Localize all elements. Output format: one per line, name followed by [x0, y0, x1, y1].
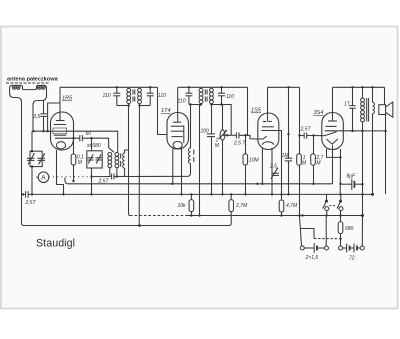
wire E line (AVC/detector return) [91, 176, 111, 178]
top rail segment 4 [333, 86, 385, 88]
wire secondary bottom down to rail B end [372, 120, 374, 194]
wire rail C down to battery 72 [361, 216, 363, 247]
svg-text:st.580: st.580 [87, 143, 101, 149]
tube 3S4 filament leads joined [327, 149, 341, 194]
IFT2 capacitor 110 left [185, 87, 192, 104]
svg-text:10M: 10M [249, 157, 260, 163]
top rail segment 3 [268, 86, 300, 88]
antenna right winding [37, 86, 41, 90]
variable capacitor C-tune 2 [38, 154, 46, 165]
wire IFT1 secondary return down to rail D [138, 106, 140, 226]
svg-text:4,7M: 4,7M [286, 203, 298, 209]
IFT2 primary winding [199, 87, 203, 104]
svg-text:2,5T: 2,5T [25, 200, 37, 206]
svg-text:2,5T: 2,5T [300, 126, 312, 132]
detector coil core dashes [193, 150, 195, 163]
wire tuning cap to rail B [31, 167, 33, 195]
switch S1 (filament) [323, 194, 329, 216]
output transformer primary winding [361, 87, 365, 122]
tube 1S5 plate wire out right [275, 131, 282, 195]
wire trimmer box to rail B [91, 168, 93, 194]
capacitor 8uF electrolytic [341, 179, 363, 190]
battery 2x1,5 cells [304, 243, 324, 253]
IFT2 capacitor 110 right [218, 87, 225, 104]
wire IFT2 primary return down to rail C [199, 105, 201, 216]
wire after cap 50 to osc coil [82, 138, 114, 152]
svg-text:110: 110 [178, 99, 186, 105]
oscillator coil core [120, 154, 122, 167]
svg-text:1S5: 1S5 [251, 108, 262, 114]
junction node antenna/grid [32, 130, 34, 132]
wire plate line y131 [343, 131, 385, 194]
top rail segment 2 [178, 86, 248, 88]
resistor 1M to rail [297, 136, 302, 216]
capacitor 2,5T antenna series at rail B left [22, 191, 33, 197]
resistor 10k [189, 194, 194, 216]
node 1R5 lead on rail B [62, 193, 64, 195]
tube 1T4 filament [173, 141, 182, 148]
tube 1R5 cathode leads to rail [57, 150, 64, 194]
rail D (bottom) [22, 192, 232, 226]
potentiometer 1M (oval) [219, 105, 227, 195]
wire switch S1 down to battery [325, 216, 327, 247]
capacitor 1M (coupling to output grid chain) [285, 134, 292, 194]
tube 1T4 grid bars [171, 125, 184, 127]
IFT2 bottom fold wires [189, 104, 201, 106]
dashed underline under antenna label [6, 82, 49, 84]
tube 1S5 top lead to rail [267, 87, 269, 121]
battery 72 terminal right [360, 246, 364, 250]
capacitor 2,5T on E line [112, 174, 114, 180]
svg-text:50: 50 [86, 131, 92, 137]
resistor 2,7M grid return [311, 136, 316, 184]
dashed wire from jack A [49, 176, 92, 178]
wire IFT1 primary return down to rail C [129, 106, 131, 216]
oscillator coil winding 1 [108, 153, 112, 168]
svg-text:A: A [41, 175, 46, 182]
wire pot wiper to grid [223, 134, 236, 136]
svg-text:2×1,5: 2×1,5 [305, 255, 319, 261]
tube 1T4 plate bar [173, 121, 182, 123]
wire cap to 3S4 grid [307, 135, 322, 137]
capacitor 2,5T to 3S4 grid [304, 133, 307, 139]
capacitor 2,5T coupling to 1S5 [236, 132, 239, 138]
IFT1 capacitor 110 right [147, 87, 154, 105]
battery 2x1,5 terminal right [325, 246, 329, 250]
ferrite rod antenna outline [10, 85, 47, 192]
svg-text:1M: 1M [282, 153, 290, 159]
svg-text:2,5: 2,5 [269, 164, 277, 170]
IFT1 capacitor 110 left [113, 87, 120, 105]
battery 72 cells [343, 244, 360, 253]
svg-text:110: 110 [103, 93, 111, 99]
svg-text:antena pałeczkowa: antena pałeczkowa [7, 77, 59, 83]
tube 1R5 envelope [51, 112, 74, 150]
IFT1 core [133, 90, 135, 102]
wire: grid line from antenna to 1R5 and across to oscillator corner [34, 131, 118, 152]
svg-text:680: 680 [345, 226, 354, 232]
capacitor 3,5 (antenna coupling) [40, 101, 46, 132]
trimmer capacitor 1 [88, 154, 94, 163]
tube 3S4 filament center tap down to rail A [332, 145, 334, 183]
svg-text:3S4: 3S4 [314, 110, 324, 116]
resistor 680 [338, 216, 343, 246]
svg-text:8μF: 8μF [347, 173, 357, 179]
tube 3S4 envelope [322, 113, 344, 150]
tube 1R5 grid bars [54, 124, 66, 126]
wire rail seg3 corner down to R6 [299, 87, 301, 135]
rail B (ground/B-) [32, 193, 371, 195]
svg-text:72: 72 [349, 256, 355, 262]
tube 1S5 filament [262, 142, 274, 145]
IFT2 core [205, 90, 207, 102]
jack A circle [38, 172, 49, 183]
IFT1 secondary winding [138, 87, 142, 105]
resistor 0,1M [71, 138, 76, 181]
tube 1T4 envelope [167, 113, 189, 150]
wire R6 with coupling cap to 3S4 grid [300, 135, 304, 137]
capacitor 100 [207, 134, 215, 137]
wire vertical B- to battery area [362, 131, 364, 216]
trimmer box (padder) [87, 151, 102, 168]
tube 1T4 plate lead from top rail [177, 87, 179, 122]
tube 3S4 filament [326, 139, 337, 144]
resistor 10M grid leak [243, 135, 248, 194]
capacitor 50 [80, 135, 83, 141]
svg-text:110: 110 [158, 93, 166, 99]
oscillator tickler winding arcs [123, 153, 125, 168]
wire 1R5 plate out [55, 137, 80, 139]
capacitor 77 tone [349, 87, 355, 131]
svg-text:100: 100 [201, 129, 210, 135]
wire: screen corner from top rail down into 1R5 [48, 87, 60, 131]
tube 1S5 grid bars [262, 126, 274, 128]
IFT1 primary winding [127, 87, 131, 105]
svg-text:1T4: 1T4 [161, 108, 171, 114]
wire top rail seg1 corner down to 1T4 grid [158, 87, 168, 134]
detector coil bottom corner to E line [190, 164, 192, 175]
svg-text:3,5: 3,5 [33, 114, 40, 120]
tube 1S5 envelope [258, 113, 279, 150]
svg-text:2,7M: 2,7M [235, 203, 248, 209]
speaker [379, 102, 393, 117]
tube 1R5 filament loop [56, 142, 65, 149]
tube 1S5 diode plate dashes [263, 121, 272, 123]
resistor 4,7M [279, 194, 284, 216]
speaker top lead [384, 87, 386, 104]
wire IFT2 left branch down to detector coil [190, 105, 192, 149]
oscillator coil winding 2 [115, 153, 119, 168]
rail A (filament minus) [65, 178, 333, 184]
wire rail seg2 corner down to grid line [246, 87, 248, 135]
IFT2 secondary winding [210, 87, 214, 104]
wire E line continues to detector coil corner [114, 175, 191, 177]
potentiometer 2,5 regen trimmer [271, 168, 279, 179]
svg-text:Staudigl: Staudigl [36, 238, 75, 250]
svg-text:2,5 T: 2,5 T [233, 140, 246, 146]
tube 3S4 plate bar [328, 120, 337, 122]
resistor 2,7M bias [229, 194, 234, 212]
wire cap 100 down to rail B [211, 137, 213, 194]
rail C (switched B+) partially dashed [130, 215, 186, 217]
tube 1S5 filament leads [261, 148, 263, 184]
wire screen drop with coupling cap [288, 87, 290, 134]
osc winding bottom leads [109, 168, 111, 177]
wire tuning cap top feed [31, 131, 33, 151]
tuning gang box [30, 151, 42, 166]
battery 72 terminal left [339, 246, 343, 250]
wire into trimmer box [91, 138, 93, 151]
switch S2 (HT) [337, 194, 343, 216]
wire transformer primary bottom to plate line [362, 122, 364, 131]
output transformer secondary [373, 98, 375, 120]
tube 3S4 plate lead up to rail [332, 87, 334, 121]
svg-text:110: 110 [226, 94, 234, 100]
antenna left winding [12, 86, 16, 90]
trimmer capacitor 2 [96, 154, 102, 163]
IFT1 bottom fold wires [117, 105, 129, 107]
tube 1S5 grid entry diagonal [258, 136, 267, 139]
output transformer core [367, 98, 369, 122]
svg-text:10k: 10k [178, 203, 187, 209]
svg-text:1R5: 1R5 [62, 96, 73, 102]
switch gang dashes [330, 205, 337, 207]
wire zigzag filament feed [300, 216, 302, 246]
wire cap to 1S5 grid [239, 135, 258, 139]
tube 1R5 top electrode and lead [59, 103, 61, 121]
wire secondary top to rail [372, 87, 374, 98]
speaker bottom lead [385, 115, 387, 132]
tube 3S4 grid bars [325, 125, 336, 127]
battery 2x1,5 terminal left [300, 246, 304, 250]
svg-text:1T: 1T [344, 101, 351, 107]
variable capacitor C-tune 1 [27, 154, 35, 165]
wire IFT2 secondary return down through cap 100 [211, 105, 213, 134]
detector coil arcs [189, 148, 191, 164]
tube 1T4 filament leads [172, 149, 174, 184]
top rail segment 1 [60, 86, 158, 88]
tickler top lead [125, 150, 129, 153]
